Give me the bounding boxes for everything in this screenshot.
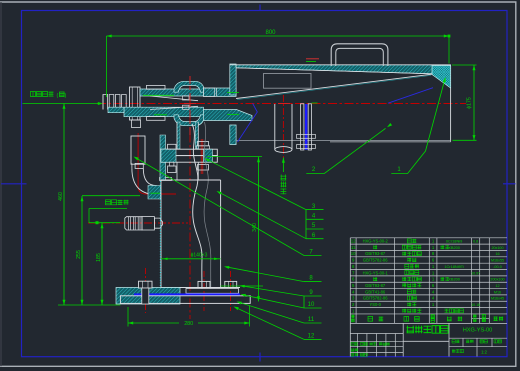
dimension 800 top: [107, 35, 450, 37]
svg-text:GB/T5782-86: GB/T5782-86: [363, 296, 388, 301]
anchor bolt left head: [139, 281, 153, 288]
svg-text:YS0-0: YS0-0: [370, 302, 382, 307]
BOM header row: [351, 315, 354, 318]
svg-text:800: 800: [265, 30, 276, 36]
anchor bolt left shank: [142, 288, 149, 304]
svg-text:10: 10: [308, 302, 315, 308]
svg-text:12: 12: [308, 334, 315, 340]
svg-text:GB/T41-86: GB/T41-86: [365, 289, 386, 294]
siphon S-tube right wall: [204, 122, 211, 289]
vertical centerline of down branch / tank axis: [189, 84, 191, 319]
nozzle body bottom wall (hatched): [124, 107, 203, 117]
exhaust port label: [282, 158, 285, 163]
flange lower plate: [161, 156, 217, 163]
nozzle body top wall (hatched): [140, 89, 203, 96]
joint flange gasket (blue): [305, 104, 308, 150]
dimension 280 bottom: [128, 322, 179, 324]
part leader 12: [304, 338, 322, 340]
svg-text:ϕ140×3: ϕ140×3: [191, 252, 208, 258]
border centering tick right: [503, 183, 516, 185]
svg-text:12: 12: [351, 239, 356, 244]
suction box left wall lower (hatched): [230, 125, 236, 145]
part leaders 3-6 ladder: [305, 210, 307, 239]
svg-text:255: 255: [76, 250, 82, 259]
vertical centerline of left sight-glass pipe + elbow bend: [138, 133, 176, 194]
nozzle tip detail: [183, 96, 190, 100]
svg-text:(: (: [57, 93, 59, 99]
tank left wall section dots: [159, 181, 161, 287]
svg-text:1Cr18Ni9Ti: 1Cr18Ni9Ti: [444, 264, 464, 269]
joint flange bolt upper: [297, 135, 316, 139]
access panel hidden rect: [264, 74, 312, 89]
label compressed air inlet: [31, 92, 36, 97]
dimension 255: [81, 196, 83, 305]
part leader 7: [304, 255, 322, 257]
blue break line near box left: [238, 103, 258, 142]
border centering tick left: [1, 183, 27, 185]
compressed air inlet leader: [23, 103, 100, 105]
dimension phi140x3: [161, 258, 221, 260]
flange hatched left: [161, 149, 176, 162]
nozzle collar upper: [147, 85, 166, 89]
svg-text:M16: M16: [494, 290, 501, 294]
neck below sight glass: [135, 163, 143, 168]
svg-text:-00-0: -00-0: [493, 265, 502, 269]
T-junction cap hump upper (hatched): [174, 81, 204, 92]
box floor step (hatched): [203, 110, 252, 121]
tank top edge: [161, 179, 221, 181]
tank top lip: [160, 178, 172, 181]
border centering tick bottom: [259, 353, 261, 362]
box right wall: [450, 66, 452, 142]
BOM table grid: [349, 238, 351, 357]
svg-text:0Cr18Ni9: 0Cr18Ni9: [446, 239, 462, 244]
suction box left wall upper (hatched): [230, 64, 236, 95]
svg-text:185: 185: [96, 253, 102, 262]
dimension 340: [258, 157, 260, 302]
exhaust tube vertical centerline: [282, 95, 284, 163]
nozzle barbed inlet fitting: [103, 95, 108, 110]
svg-text:GB/T93-87: GB/T93-87: [365, 251, 386, 256]
svg-text:GB/T5782-86: GB/T5782-86: [363, 258, 388, 263]
nozzle inner converging cone: [150, 96, 198, 101]
svg-text:460: 460: [58, 192, 64, 201]
muffler box top band (hatched, sloped inner edge): [236, 65, 451, 74]
steam pipe label + bracket: [106, 200, 111, 205]
svg-text:10: 10: [351, 251, 356, 256]
mixing chamber upper wall block (hatched): [203, 88, 236, 96]
svg-text:HXG-YS-00-1: HXG-YS-00-1: [363, 270, 389, 275]
svg-text:11: 11: [308, 317, 315, 323]
svg-text:12: 12: [495, 284, 499, 288]
flange hatched center-right: [203, 149, 212, 162]
tank bottom edge: [161, 287, 240, 289]
svg-text:M16x45: M16x45: [491, 297, 504, 301]
shared bottom extension line: [58, 304, 120, 306]
svg-text:ϕ175: ϕ175: [467, 97, 473, 109]
flange upper plate: [161, 149, 217, 155]
exhaust down tube: [274, 104, 276, 150]
lifting handle outer: [331, 44, 388, 66]
blue construction line from wedge: [388, 88, 433, 104]
svg-text:M16x55: M16x55: [491, 259, 504, 263]
svg-text:HXG-YS-00-2: HXG-YS-00-2: [363, 239, 389, 244]
lifting handle inner: [336, 48, 384, 66]
border centering tick top: [259, 5, 261, 12]
svg-text:): ): [65, 93, 67, 99]
flange stud right nut: [198, 165, 209, 171]
elbow outer arc: [132, 168, 158, 194]
box bottom line (hidden gray): [236, 139, 451, 141]
anchor bolt centerline right: [230, 271, 232, 311]
main horizontal centerline of ejector: [97, 103, 466, 105]
vertical gusset strip (hatched): [160, 135, 166, 180]
nozzle collar lower: [147, 117, 166, 121]
elbow socket (hatched): [148, 186, 161, 200]
flange stud right head: [198, 142, 209, 146]
title block: [402, 323, 404, 356]
anchor bolt centerline mid: [203, 271, 205, 311]
svg-text:1:2: 1:2: [481, 350, 487, 355]
base gasket (blue): [134, 293, 240, 295]
lower support band (hatched): [108, 107, 124, 113]
svg-text:280: 280: [184, 321, 193, 327]
dimension phi175 right: [473, 65, 475, 140]
flange stud centerline: [201, 139, 204, 174]
hose fitting body: [142, 217, 154, 230]
part leader 2: [306, 128, 385, 173]
bright center cross: [184, 103, 196, 105]
drawing frame outer paper edge: [0, 1, 517, 3]
svg-text:XB200: XB200: [448, 277, 461, 282]
nozzle hex nut: [130, 87, 141, 120]
base plate: [120, 296, 250, 304]
part leader 8: [304, 281, 322, 283]
svg-text:200x100: 200x100: [490, 278, 504, 282]
stud bolt right head: [225, 281, 237, 287]
boss under hex: [132, 120, 141, 128]
joint flange bolt lower: [297, 145, 316, 149]
T-junction cap hump lower (hatched): [174, 115, 204, 126]
elbow inner arc: [143, 168, 156, 185]
siphon S-tube left wall: [192, 124, 202, 289]
svg-text:10.97: 10.97: [471, 271, 480, 275]
hose fitting socket plug: [154, 218, 162, 228]
tank bottom flange hatched left: [116, 288, 180, 305]
svg-text:16: 16: [495, 252, 499, 256]
hose fitting barb rings: [125, 217, 142, 230]
anchor bolt centerline left: [145, 268, 147, 313]
vertical joint flange plates: [301, 104, 304, 150]
sight glass body on left branch: [131, 136, 145, 164]
joint lines at mixing chamber: [216, 88, 218, 96]
pipe walls below flange: [176, 162, 178, 180]
svg-text:20x100: 20x100: [491, 246, 503, 250]
svg-text:10.16: 10.16: [471, 303, 480, 307]
svg-text:XB200: XB200: [448, 245, 461, 250]
tank bottom flange plate: [186, 289, 239, 294]
svg-text:HXG-YS-00: HXG-YS-00: [463, 328, 493, 334]
hose fitting horizontal centerline: [88, 222, 188, 224]
svg-text:0.8: 0.8: [473, 240, 478, 244]
stud bolt mid head: [198, 281, 210, 287]
flange bolt left head: [168, 144, 177, 149]
svg-text:GB/T93-87: GB/T93-87: [365, 283, 386, 288]
o-ring groove marks: [143, 94, 174, 96]
dimension 185: [101, 223, 103, 305]
part leaders 9-10 ladder: [303, 296, 305, 308]
hatched wedge at diffuser exit: [432, 66, 451, 89]
tank right wall: [220, 180, 222, 288]
flange bolt left nut: [168, 166, 177, 173]
diffuser cone top line: [236, 74, 432, 98]
dimension 460 left: [63, 104, 65, 306]
tank left wall: [160, 180, 162, 288]
part leader 11: [304, 322, 322, 324]
svg-text:11: 11: [351, 245, 356, 250]
section tick left of handle: [306, 58, 319, 60]
exhaust tube bottom ellipse: [275, 147, 292, 153]
bright red centerline at T junction: [189, 76, 191, 136]
mixing chamber joint detail rect: [203, 88, 214, 96]
drawing title pseudo text: [407, 326, 415, 334]
down branch pipe walls: [177, 122, 180, 149]
part leader 1: [391, 80, 445, 174]
